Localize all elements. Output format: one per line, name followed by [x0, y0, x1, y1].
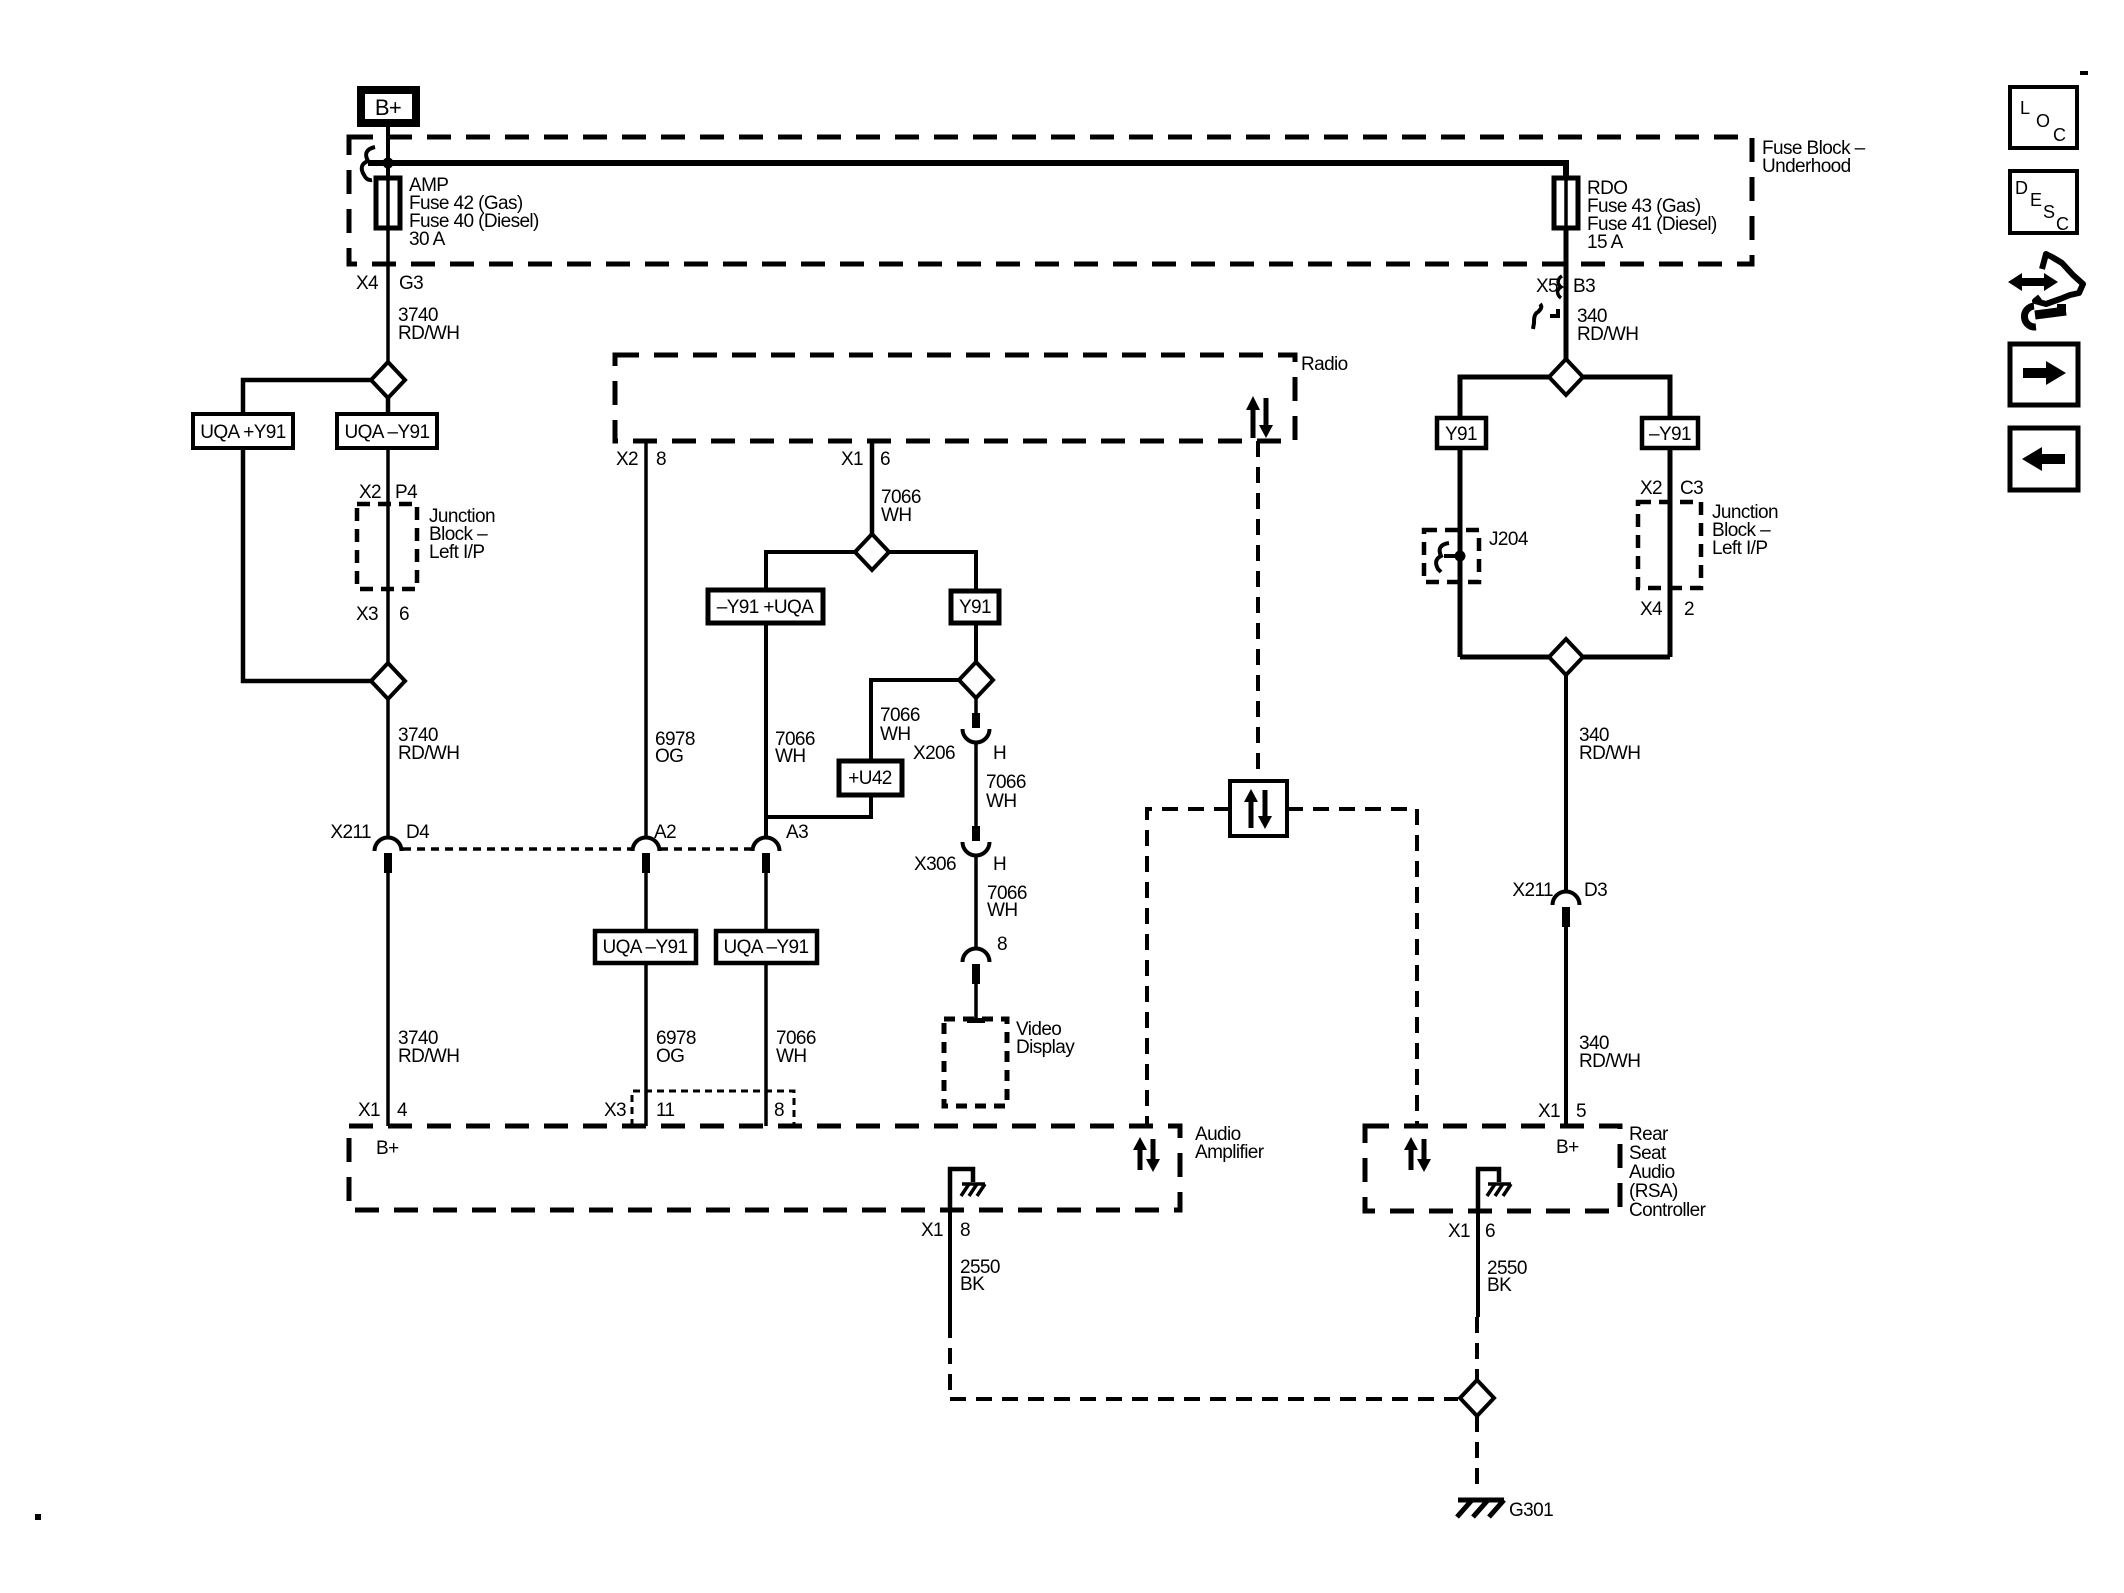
- wire diamond to -Y91 +UQA: [766, 552, 855, 590]
- svg-text:H: H: [993, 743, 1006, 764]
- svg-text:6: 6: [399, 604, 409, 625]
- svg-text:(RSA): (RSA): [1629, 1181, 1678, 1202]
- svg-text:B3: B3: [1573, 276, 1595, 297]
- wire RSA X1 6 ground 2550 BK: [1476, 1211, 1480, 1317]
- wire label 340 RD/WH lower: [1579, 1033, 1640, 1072]
- svg-text:6: 6: [1485, 1221, 1495, 1242]
- wire X206 to X306 7066 WH: [974, 743, 978, 827]
- wire -Y91 down through junction block right: [1668, 448, 1673, 657]
- junction block left I/P dashed box (right): [1638, 502, 1701, 588]
- pin X1 6 label: [841, 449, 890, 470]
- svg-text:X1: X1: [1448, 1221, 1470, 1242]
- svg-text:RD/WH: RD/WH: [1577, 324, 1638, 345]
- wire AMP fuse output 3740 RD/WH: [386, 228, 390, 362]
- svg-text:G301: G301: [1509, 1500, 1553, 1521]
- amplifier data arrows glyph: [1133, 1137, 1160, 1172]
- X211 D4 labels: [330, 822, 430, 843]
- svg-text:Y91: Y91: [1445, 424, 1477, 445]
- svg-text:D: D: [2015, 178, 2028, 198]
- svg-text:X206: X206: [913, 743, 955, 764]
- wire label 2550 BK RSA: [1487, 1258, 1527, 1296]
- junction block left label: [429, 506, 495, 563]
- svg-text:4: 4: [397, 1100, 408, 1121]
- radio dashed box: [615, 355, 1295, 441]
- wire Y91 down through J204: [1458, 448, 1463, 657]
- svg-text:8: 8: [960, 1220, 970, 1241]
- ground G301 symbol: [1457, 1500, 1504, 1517]
- J204 splice node: [1436, 543, 1465, 572]
- splice squiggle at bus start: [362, 147, 375, 180]
- svg-text:WH: WH: [987, 900, 1017, 921]
- svg-text:OG: OG: [655, 746, 683, 767]
- wire label 7066 WH left branch: [775, 729, 815, 767]
- wire label 7066 WH between connectors: [986, 772, 1026, 812]
- svg-text:WH: WH: [775, 746, 805, 767]
- RSA internal ground wire: [1478, 1169, 1499, 1211]
- svg-text:X3: X3: [356, 604, 378, 625]
- amplifier chassis ground symbol: [961, 1184, 985, 1196]
- video display dotted box: [944, 1019, 1007, 1106]
- splice diamond S-left-bottom: [371, 663, 405, 699]
- inline connector pin 8 video display: [963, 949, 990, 984]
- wire 3740 RD/WH to X211 D4: [386, 699, 390, 839]
- nav icon DESC: [2010, 171, 2077, 234]
- nav icon wrench and arrows: [2008, 254, 2083, 327]
- wire label 340 RD/WH mid: [1579, 725, 1640, 764]
- svg-text:D4: D4: [406, 822, 430, 843]
- wire loop to Y91 right: [1460, 377, 1549, 418]
- pin X3 6 label: [356, 604, 409, 625]
- svg-text:Audio: Audio: [1629, 1162, 1675, 1183]
- pin 8 label (amplifier): [774, 1100, 784, 1121]
- wire label 7066 WH above +U42: [880, 705, 920, 745]
- svg-text:X1: X1: [358, 1100, 380, 1121]
- svg-text:C: C: [2056, 214, 2069, 234]
- wire A3 to UQA -Y91: [764, 873, 768, 931]
- svg-text:WH: WH: [881, 505, 911, 526]
- svg-text:Controller: Controller: [1629, 1200, 1707, 1221]
- wire label 7066 WH lower: [776, 1028, 816, 1067]
- wire label 6978 OG lower: [656, 1028, 696, 1067]
- svg-text:Display: Display: [1016, 1037, 1075, 1058]
- battery terminal B+ box: [361, 90, 416, 123]
- nav icon arrow right: [2010, 344, 2078, 405]
- dashed to G301: [1475, 1416, 1479, 1491]
- svg-text:Left I/P: Left I/P: [429, 542, 484, 563]
- svg-text:Underhood: Underhood: [1762, 156, 1851, 177]
- wire label 3740 RD/WH upper: [398, 305, 459, 344]
- option box Y91 (radio): [951, 591, 999, 623]
- svg-text:X2: X2: [359, 482, 381, 503]
- J204 label: [1489, 529, 1529, 550]
- pin X1 8 label: [921, 1220, 970, 1241]
- wire 6978 OG to amplifier X3 11: [644, 963, 648, 1126]
- option box UQA +Y91: [193, 414, 293, 448]
- wire UQA -Y91 down through junction block: [386, 448, 390, 663]
- X206 H labels: [913, 743, 1006, 764]
- svg-text:6: 6: [880, 449, 890, 470]
- option box +U42: [839, 761, 902, 795]
- wire +U42 bend to A3: [766, 795, 871, 817]
- svg-text:Radio: Radio: [1301, 354, 1348, 375]
- fuse block label: [1762, 138, 1866, 177]
- svg-text:E: E: [2030, 190, 2042, 210]
- svg-text:O: O: [2036, 111, 2050, 131]
- svg-text:Amplifier: Amplifier: [1195, 1142, 1265, 1163]
- svg-text:C: C: [2053, 125, 2066, 145]
- splice diamond ground G301: [1460, 1380, 1494, 1416]
- svg-text:–Y91 +UQA: –Y91 +UQA: [717, 597, 814, 618]
- option box UQA -Y91 (6978): [595, 931, 696, 963]
- svg-text:11: 11: [656, 1100, 675, 1121]
- svg-text:RD/WH: RD/WH: [398, 323, 459, 344]
- wire loop UQA +Y91 down: [243, 448, 371, 681]
- pin X2 C3 label: [1640, 478, 1703, 499]
- svg-text:X306: X306: [914, 854, 956, 875]
- inline connector X211 D3: [1553, 892, 1580, 927]
- svg-text:15 A: 15 A: [1587, 232, 1624, 253]
- wire 340 RD/WH to X211 D3: [1564, 675, 1568, 892]
- fuse AMP Fuse 42 (Gas) / Fuse 40 (Diesel) 30 A: [376, 178, 400, 228]
- inline connector X206 H: [963, 713, 990, 743]
- svg-text:X1: X1: [921, 1220, 943, 1241]
- wire radio X2 8 output 6978 OG: [644, 441, 648, 839]
- wire amplifier X1 8 ground 2550 BK: [948, 1210, 952, 1322]
- svg-text:UQA +Y91: UQA +Y91: [200, 422, 286, 443]
- wire label 6978 OG upper: [655, 729, 695, 767]
- svg-text:WH: WH: [776, 1046, 806, 1067]
- rear seat audio controller dashed box: [1365, 1126, 1620, 1211]
- svg-text:S: S: [2043, 202, 2055, 222]
- A2 label: [654, 822, 676, 843]
- option box Y91 right: [1437, 418, 1486, 448]
- svg-text:X211: X211: [330, 822, 371, 843]
- svg-text:D3: D3: [1584, 880, 1607, 901]
- svg-text:30 A: 30 A: [409, 229, 446, 250]
- junction block left I/P dashed box (left): [357, 504, 417, 589]
- wire RDO fuse output 340 RD/WH: [1564, 228, 1569, 359]
- amplifier internal ground wire: [950, 1169, 973, 1210]
- audio amplifier dashed box: [349, 1126, 1180, 1210]
- option box UQA -Y91: [337, 414, 437, 448]
- svg-text:OG: OG: [656, 1046, 684, 1067]
- wire loop to UQA +Y91: [243, 380, 371, 414]
- wire loop to -Y91 right: [1583, 377, 1670, 418]
- svg-text:BK: BK: [960, 1274, 985, 1295]
- wire diamond to UQA -Y91: [386, 398, 391, 414]
- splice diamond S-left-top: [371, 362, 405, 398]
- pin X1 4 label: [358, 1100, 408, 1121]
- wire 3740 RD/WH to amplifier X1 4: [386, 873, 390, 1126]
- fuse RDO value label: [1587, 178, 1717, 253]
- wire diamond down to X206: [974, 698, 978, 714]
- G301 label: [1509, 1500, 1553, 1521]
- svg-text:X1: X1: [1538, 1101, 1560, 1122]
- wire Y91 down to diamond: [974, 623, 978, 662]
- wire label 3740 RD/WH mid: [398, 725, 459, 764]
- svg-text:Y91: Y91: [959, 597, 991, 618]
- svg-text:B+: B+: [1556, 1137, 1579, 1158]
- svg-text:UQA –Y91: UQA –Y91: [345, 422, 430, 443]
- X211 D3 labels: [1512, 880, 1607, 901]
- fuse AMP value label: [409, 175, 539, 250]
- svg-text:–Y91: –Y91: [1649, 424, 1691, 445]
- audio amplifier label: [1195, 1124, 1265, 1163]
- svg-text:7066: 7066: [986, 772, 1026, 793]
- dashed data link radio down: [1256, 441, 1260, 781]
- wire diamond to Y91: [889, 552, 976, 591]
- data link box arrows: [1244, 789, 1272, 829]
- svg-text:H: H: [993, 854, 1006, 875]
- svg-text:X4: X4: [356, 273, 379, 294]
- svg-text:UQA –Y91: UQA –Y91: [724, 937, 809, 958]
- radio data arrows glyph: [1246, 396, 1273, 438]
- inline connector X306 H: [963, 826, 990, 856]
- wire into video display: [967, 984, 985, 1021]
- wire X306 to video display 7066 WH: [974, 856, 978, 950]
- fuse block underhood dashed box: [349, 137, 1752, 264]
- svg-text:RD/WH: RD/WH: [1579, 743, 1640, 764]
- wire D3 to RSA X1 5: [1564, 927, 1568, 1126]
- pin X2 8 label: [616, 449, 666, 470]
- option box -Y91 +UQA: [708, 590, 823, 623]
- video display label: [1016, 1019, 1075, 1058]
- pin X5 B3 label: [1536, 276, 1595, 297]
- wire battery bus to RDO fuse: [368, 163, 1566, 178]
- wire label 340 RD/WH upper: [1577, 306, 1638, 345]
- X3 dotted connector box on amplifier: [632, 1091, 794, 1126]
- splice diamond S-mid-2: [959, 662, 993, 698]
- J204 splice dashed box: [1424, 530, 1479, 582]
- splice diamond S-right-bottom: [1549, 639, 1583, 675]
- svg-text:8: 8: [656, 449, 666, 470]
- svg-text:8: 8: [774, 1100, 784, 1121]
- svg-text:5: 5: [1576, 1101, 1586, 1122]
- dashed data link to amplifier: [1147, 809, 1230, 1126]
- wire 7066 WH to amplifier pin 8: [764, 963, 768, 1126]
- svg-text:WH: WH: [880, 724, 910, 745]
- svg-text:G3: G3: [399, 273, 423, 294]
- wire radio X1 6 output 7066 WH: [870, 441, 875, 534]
- inline connector X211 D4: [375, 838, 402, 874]
- bottom loop wires right: [1460, 655, 1670, 660]
- pin 8 label video: [997, 934, 1007, 955]
- svg-text:X3: X3: [604, 1100, 626, 1121]
- nav icon arrow left: [2010, 428, 2078, 490]
- splice squiggle 340: [1533, 304, 1558, 329]
- RSA label: [1629, 1124, 1707, 1221]
- splice diamond S-right-top: [1549, 359, 1583, 395]
- wire label 7066 WH video: [987, 883, 1027, 921]
- data link connector box: [1230, 781, 1287, 836]
- pin X4 2 label: [1640, 599, 1694, 620]
- svg-text:BK: BK: [1487, 1275, 1512, 1296]
- A3 label: [786, 822, 808, 843]
- dashed RSA ground down: [1475, 1317, 1479, 1380]
- pin X1 6 label RSA: [1448, 1221, 1495, 1242]
- wire label 7066 WH radio: [881, 487, 921, 526]
- wire B+ feed down into fuse block: [386, 127, 390, 178]
- wire label 2550 BK amp: [960, 1257, 1000, 1295]
- svg-text:UQA –Y91: UQA –Y91: [603, 937, 688, 958]
- svg-text:B+: B+: [376, 1138, 399, 1159]
- svg-text:X211: X211: [1512, 880, 1553, 901]
- dashed jumper A2 to A3: [660, 847, 752, 851]
- svg-text:A2: A2: [654, 822, 676, 843]
- svg-text:RD/WH: RD/WH: [398, 743, 459, 764]
- svg-text:X5: X5: [1536, 276, 1558, 297]
- wire diamond to +U42: [871, 680, 959, 761]
- nav icon LOC: [2010, 87, 2077, 148]
- svg-text:Rear: Rear: [1629, 1124, 1669, 1145]
- dashed jumper D4 to A2: [403, 847, 632, 851]
- node battery bus junction: [383, 158, 394, 169]
- pin X3 11 label: [604, 1100, 675, 1121]
- fuse RDO Fuse 43 (Gas) / Fuse 41 (Diesel) 15 A: [1554, 178, 1578, 228]
- svg-text:7066: 7066: [880, 705, 920, 726]
- svg-text:X2: X2: [1640, 478, 1662, 499]
- svg-text:8: 8: [997, 934, 1007, 955]
- svg-text:RD/WH: RD/WH: [1579, 1051, 1640, 1072]
- svg-text:+U42: +U42: [848, 768, 892, 789]
- amplifier B+ pin label: [376, 1138, 399, 1159]
- pin X1 5 label: [1538, 1101, 1586, 1122]
- RSA chassis ground symbol: [1487, 1184, 1511, 1196]
- svg-text:J204: J204: [1489, 529, 1529, 550]
- wire label 3740 RD/WH lower: [398, 1028, 459, 1067]
- connector arc X5: [1558, 276, 1562, 298]
- svg-text:2: 2: [1684, 599, 1694, 620]
- radio label: [1301, 354, 1348, 375]
- svg-text:Seat: Seat: [1629, 1143, 1667, 1164]
- wire -Y91 +UQA down to A3: [764, 623, 768, 839]
- option box UQA -Y91 (7066): [716, 931, 817, 963]
- inline connector A2: [633, 838, 660, 874]
- X306 H labels: [914, 854, 1006, 875]
- dashed ground run to G301: [950, 1322, 1458, 1399]
- pin X4 G3 label: [356, 273, 423, 294]
- svg-text:X4: X4: [1640, 599, 1663, 620]
- svg-text:B+: B+: [375, 95, 401, 120]
- svg-text:A3: A3: [786, 822, 808, 843]
- wire A2 to UQA -Y91: [644, 873, 648, 931]
- pin X2 P4 label: [359, 482, 418, 503]
- stray mark top right: [2080, 71, 2088, 75]
- svg-text:P4: P4: [395, 482, 418, 503]
- option box -Y91 right: [1642, 418, 1698, 448]
- stray mark bottom left: [35, 1514, 41, 1520]
- svg-text:L: L: [2020, 98, 2030, 118]
- junction block right label: [1712, 502, 1778, 559]
- svg-text:X2: X2: [616, 449, 638, 470]
- svg-text:C3: C3: [1680, 478, 1703, 499]
- RSA B+ pin label: [1556, 1137, 1579, 1158]
- RSA data arrows glyph: [1404, 1137, 1431, 1172]
- dashed data link to RSA: [1287, 809, 1417, 1126]
- svg-text:X1: X1: [841, 449, 863, 470]
- inline connector A3: [753, 838, 780, 874]
- svg-text:RD/WH: RD/WH: [398, 1046, 459, 1067]
- svg-text:Left I/P: Left I/P: [1712, 538, 1767, 559]
- svg-text:WH: WH: [986, 791, 1016, 812]
- splice diamond S-mid-top: [855, 534, 889, 570]
